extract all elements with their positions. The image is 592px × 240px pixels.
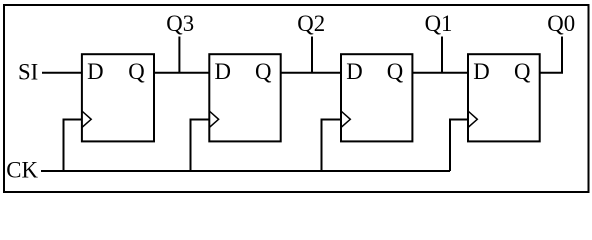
flip-flop U2 box	[209, 54, 280, 141]
node Q3 stub	[178, 37, 180, 73]
flip-flop U1 box	[82, 54, 154, 141]
node Q2 stub	[311, 37, 313, 73]
svg-text:CK: CK	[6, 158, 38, 183]
wire CK riser to U3 clock	[322, 120, 342, 172]
clock triangle U4	[468, 111, 477, 128]
svg-text:Q: Q	[255, 59, 272, 84]
svg-text:SI: SI	[18, 60, 38, 85]
svg-text:Q2: Q2	[297, 11, 325, 36]
svg-text:Q: Q	[128, 59, 145, 84]
wire CK bus	[41, 170, 450, 172]
svg-text:D: D	[346, 59, 362, 84]
svg-text:Q1: Q1	[425, 11, 453, 36]
clock triangle U1	[82, 111, 91, 128]
wire CK riser to U1 clock	[64, 120, 82, 172]
wire U1 Q to U2 D	[154, 72, 209, 74]
flip-flop U4 box	[468, 54, 540, 141]
svg-text:Q: Q	[387, 59, 404, 84]
svg-text:Q3: Q3	[166, 11, 194, 36]
svg-text:D: D	[473, 59, 489, 84]
wire SI to U1 D	[42, 72, 82, 74]
clock triangle U3	[341, 111, 350, 128]
node Q1 stub	[441, 37, 443, 73]
clock triangle U2	[209, 111, 218, 128]
svg-text:Q: Q	[514, 59, 531, 84]
svg-text:D: D	[87, 59, 103, 84]
flip-flop U3 box	[341, 54, 412, 141]
svg-text:Q0: Q0	[547, 11, 575, 36]
wire CK riser to U2 clock	[191, 120, 210, 172]
wire U4 Q to node Q0	[540, 37, 562, 73]
wire CK riser to U4 clock	[450, 120, 468, 172]
wire U2 Q to U3 D	[281, 72, 341, 74]
svg-text:D: D	[215, 59, 231, 84]
wire U3 Q to U4 D	[412, 72, 468, 74]
